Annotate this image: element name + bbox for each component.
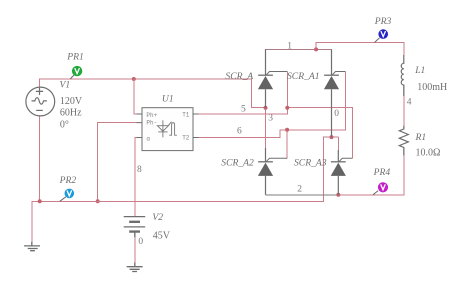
- wire net 0: U1 Ph- to bottom rail: [98, 123, 138, 202]
- svg-text:T2: T2: [182, 134, 190, 141]
- junction V1 on bottom rail: [38, 199, 42, 203]
- junction Ph- on bottom rail: [96, 199, 100, 203]
- node 0 junction dot at SCR_A1 anode: [330, 135, 334, 139]
- AC source V1: [26, 87, 55, 116]
- svg-text:Ph-: Ph-: [146, 120, 157, 127]
- wire net 6: U1 T2 to SCR_A1 gate and SCR_A2 gate: [198, 72, 345, 138]
- wire net 3: node 3 vertical SCR_A anode to SCR_A2 cathode: [265, 108, 267, 148]
- svg-text:2: 2: [297, 184, 302, 194]
- svg-text:L1: L1: [414, 65, 425, 76]
- wire net 0: bottom rail and riser to node 0: [32, 137, 339, 245]
- wire net 2: R1 bottom to bridge bottom rail: [338, 148, 404, 195]
- svg-text:0: 0: [334, 109, 339, 119]
- svg-text:1: 1: [287, 42, 292, 52]
- svg-text:0°: 0°: [60, 120, 69, 131]
- node 5 junction dot: [285, 106, 289, 110]
- battery V2: [124, 217, 146, 232]
- U1 thyristor icon: [157, 120, 177, 137]
- wire net 3: branch to U1 Ph+: [134, 79, 138, 114]
- svg-text:T1: T1: [182, 111, 190, 118]
- svg-text:6: 6: [237, 127, 242, 137]
- wire net 1: bridge top rail: [266, 49, 332, 75]
- svg-text:R1: R1: [415, 132, 427, 143]
- svg-text:SCR_A1: SCR_A1: [287, 71, 320, 82]
- SCR_A2 (bottom left): [258, 148, 287, 195]
- svg-text:3: 3: [268, 114, 273, 124]
- SCR_A1 (top right): [324, 49, 346, 137]
- svg-text:SCR_A2: SCR_A2: [221, 158, 254, 169]
- svg-text:V1: V1: [60, 80, 71, 91]
- SCR_A3 (bottom right): [331, 150, 353, 195]
- svg-text:10.0Ω: 10.0Ω: [416, 147, 441, 158]
- node 6 junction dot: [285, 128, 289, 132]
- svg-text:PR2: PR2: [59, 175, 77, 186]
- wire net 8: U1 alpha pin to V2 battery: [135, 138, 138, 217]
- svg-text:45V: 45V: [153, 231, 171, 242]
- svg-text:Ph+: Ph+: [146, 112, 157, 119]
- node 3 junction dot: [264, 106, 268, 110]
- svg-text:V2: V2: [152, 212, 163, 223]
- wire net 0: V1 bottom lead: [39, 116, 41, 202]
- svg-text:SCR_A: SCR_A: [225, 71, 253, 82]
- probe PR1: [70, 66, 82, 79]
- wire net 5: U1 T1 to SCR_A gate and SCR_A3 gate: [198, 72, 287, 115]
- resistor R1: [399, 126, 408, 155]
- svg-text:8: 8: [137, 165, 142, 175]
- wire net 4: between L1 and R1: [403, 85, 405, 129]
- ground (left, net 0): [24, 242, 40, 251]
- op-amp-block U1 firing circuit: [137, 108, 199, 151]
- inductor L1: [401, 55, 404, 96]
- SCR_A (top left): [258, 49, 287, 107]
- svg-text:PR4: PR4: [373, 167, 391, 178]
- junction SCR_A3 anode on net 2: [336, 193, 340, 197]
- probe PR4: [373, 182, 388, 195]
- svg-text:0: 0: [138, 237, 143, 247]
- wire net 3: V1 top to SCR_A anode: [40, 79, 266, 108]
- svg-text:PR3: PR3: [374, 16, 392, 27]
- svg-text:60Hz: 60Hz: [60, 108, 82, 119]
- svg-text:α: α: [146, 135, 150, 142]
- ground (battery, net 0): [127, 232, 143, 272]
- svg-text:PR1: PR1: [66, 52, 84, 63]
- svg-text:U1: U1: [162, 94, 174, 105]
- svg-text:4: 4: [407, 97, 412, 107]
- wire net 0: SCR_A3 cathode drop: [337, 137, 339, 150]
- svg-text:5: 5: [241, 105, 246, 115]
- svg-text:SCR_A3: SCR_A3: [294, 158, 327, 169]
- node junction at PR1 tap / Ph+ branch: [132, 77, 136, 81]
- wire net 1: tap to load: [316, 43, 404, 56]
- probe PR3: [375, 29, 389, 42]
- svg-text:120V: 120V: [60, 96, 83, 107]
- probe PR2: [60, 189, 74, 202]
- svg-text:100mH: 100mH: [417, 82, 447, 93]
- junction node 1: [314, 47, 318, 51]
- wire net 0: battery bottom to ground: [134, 232, 136, 267]
